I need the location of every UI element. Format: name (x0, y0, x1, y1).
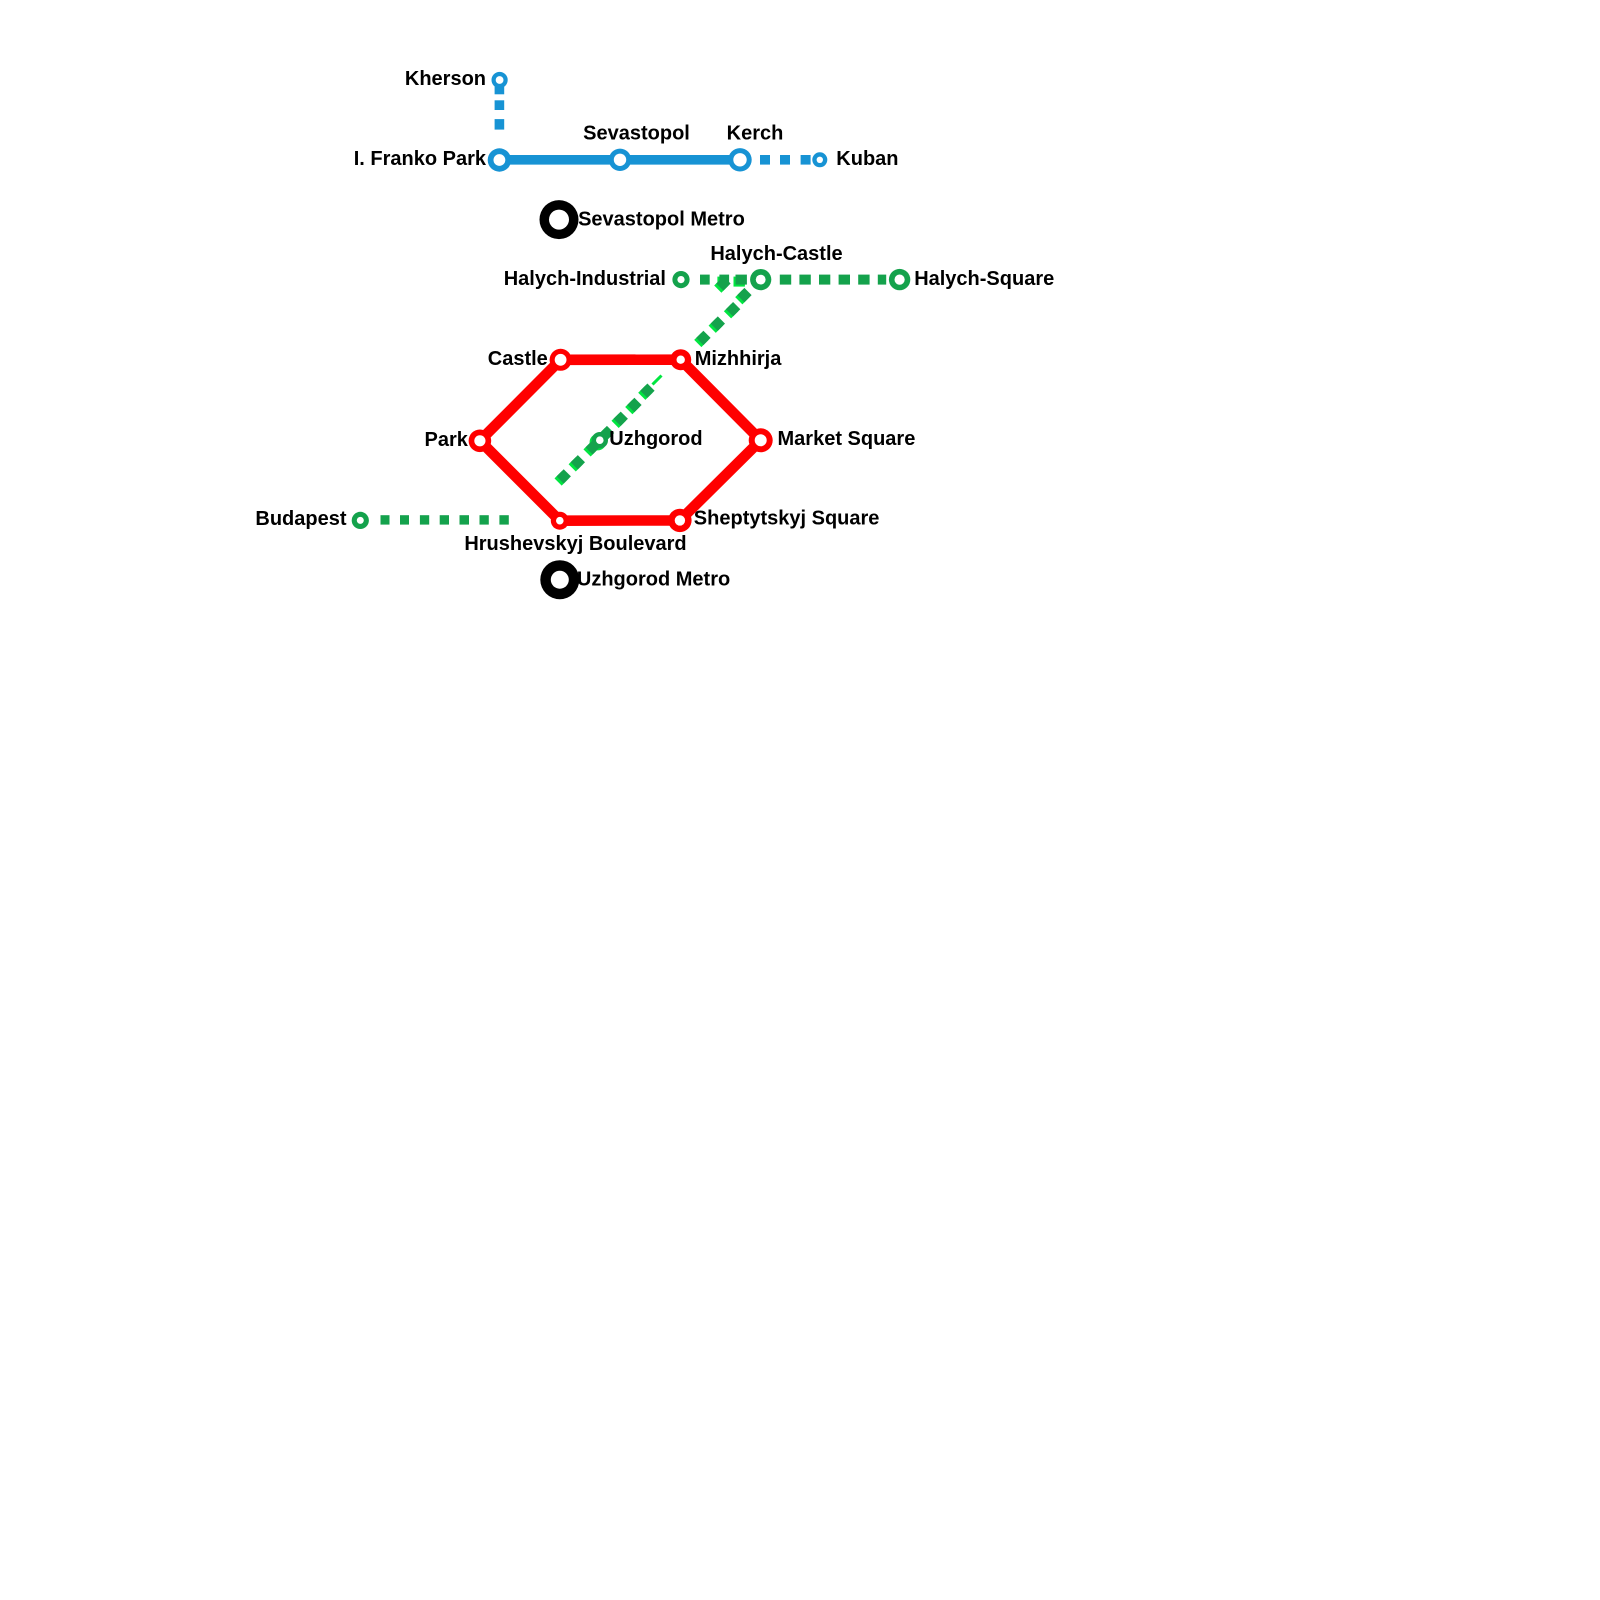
svg-text:Uzhgorod: Uzhgorod (609, 428, 702, 450)
station Budapest (352, 512, 369, 529)
svg-text:Budapest: Budapest (255, 508, 346, 530)
wire blue line I. Franko Park - Kerch (499, 155, 740, 165)
svg-text:Hrushevskyj Boulevard: Hrushevskyj Boulevard (464, 533, 686, 555)
wire green dashed Halych-Castle - Halych-Square (780, 275, 886, 285)
station Sevastopol Metro (540, 200, 579, 239)
svg-text:Sevastopol Metro: Sevastopol Metro (578, 209, 745, 231)
station Uzhgorod Metro (540, 560, 579, 599)
svg-text:Halych-Square: Halych-Square (914, 268, 1054, 290)
station Kuban (812, 152, 827, 167)
station Castle (550, 349, 572, 371)
station Halych-Industrial (672, 271, 689, 288)
svg-text:Kherson: Kherson (405, 68, 486, 90)
svg-text:Mizhhirja: Mizhhirja (695, 348, 783, 370)
station Market Square (749, 428, 773, 452)
station Kerch (728, 148, 751, 171)
wire green dashed Halych-Industrial - Halych-Castle (700, 275, 747, 285)
svg-text:Kuban: Kuban (836, 148, 898, 170)
station Sevastopol (609, 149, 631, 171)
svg-text:Castle: Castle (488, 348, 548, 370)
svg-text:Halych-Industrial: Halych-Industrial (504, 268, 666, 290)
svg-text:Kerch: Kerch (727, 122, 784, 144)
wire green diagonal bright end sliver (653, 376, 662, 385)
station Sheptytskyj Square (668, 509, 691, 532)
station Mizhhirja (670, 349, 691, 370)
station Hrushevskyj Boulevard (551, 512, 569, 530)
station Uzhgorod (592, 432, 608, 448)
station Halych-Square (889, 269, 910, 290)
svg-text:Market Square: Market Square (778, 428, 916, 450)
svg-text:Halych-Castle: Halych-Castle (710, 243, 842, 265)
station Kherson (492, 72, 508, 88)
wire blue dashed Kerch - Kuban (760, 155, 811, 165)
station I. Franko Park (488, 148, 511, 171)
wire blue dashed Kherson - I. Franko Park (495, 85, 505, 130)
svg-text:I. Franko Park: I. Franko Park (354, 148, 487, 170)
svg-text:Park: Park (425, 429, 469, 451)
wire red hexagon loop (480, 360, 761, 521)
wire green diagonal dark dashes Uzhgorod branch upper (696, 276, 751, 345)
svg-text:Sevastopol: Sevastopol (583, 122, 690, 144)
wire green dashed Budapest - Hrushevskyj Boulevard (381, 515, 509, 524)
wire green diagonal bright under-layer (offset copy) (554, 277, 749, 486)
svg-text:Uzhgorod Metro: Uzhgorod Metro (577, 569, 730, 591)
svg-text:Sheptytskyj Square: Sheptytskyj Square (694, 507, 880, 529)
wire green diagonal dark dashes Uzhgorod branch lower (556, 383, 654, 483)
station Halych-Castle (750, 269, 771, 290)
station Park (469, 430, 492, 453)
